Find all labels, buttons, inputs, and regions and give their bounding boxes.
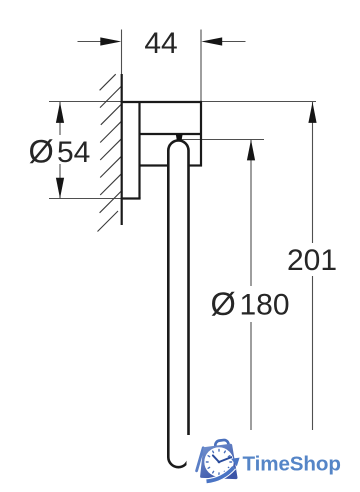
svg-text:180: 180 xyxy=(240,289,290,322)
dimension line 201 upper segment xyxy=(312,102,314,243)
extension line Ø180 (y=139.3) xyxy=(181,139,264,141)
extension line top (y=102, from Ø54/201 dims) xyxy=(49,101,316,103)
dimension 201 up arrowhead xyxy=(308,102,316,123)
extension line 44 left (x=121.5) xyxy=(121,30,123,76)
dimension line Ø180 upper segment xyxy=(250,140,252,286)
holder bottom edge right segment xyxy=(188,164,202,166)
svg-text:54: 54 xyxy=(57,136,90,169)
plate right edge xyxy=(138,102,140,199)
dimension 44 right arrowhead xyxy=(201,37,222,45)
svg-text:201: 201 xyxy=(287,244,337,277)
TimeShop logo: clock tick marks xyxy=(206,449,231,474)
towel ring bar (side view, stadium shape) xyxy=(168,140,188,467)
dimension 44 left tail xyxy=(78,41,102,43)
holder underside line xyxy=(140,133,203,135)
dimension line Ø54 lower segment xyxy=(59,164,61,199)
TimeShop logo: clock hands xyxy=(213,455,231,462)
wall hatching xyxy=(98,74,122,231)
dimension 44 right tail xyxy=(222,41,246,43)
TimeShop logo: bag left stripe xyxy=(197,448,204,471)
plate bottom edge xyxy=(121,197,141,199)
TimeShop logo: bag handle xyxy=(215,439,230,452)
svg-text:44: 44 xyxy=(144,27,177,60)
dimension line 201 lower segment xyxy=(312,276,314,430)
TimeShop logo: clock face xyxy=(204,447,233,476)
svg-text:Ø: Ø xyxy=(29,134,54,170)
logo white backdrop left part (cuts ring at y=435 / x=186.5) xyxy=(187,435,360,492)
svg-text:TimeShop: TimeShop xyxy=(243,452,341,475)
TimeShop logo: bag body xyxy=(202,445,236,477)
extension line bottom of Ø54 (y=198.5) xyxy=(49,198,122,200)
logo white backdrop right part (cuts dim lines at y=430) xyxy=(194,430,360,492)
ring hanger pin xyxy=(176,134,183,140)
dimension line Ø54 upper segment xyxy=(59,102,61,135)
wall face line xyxy=(121,74,123,225)
holder bottom edge left segment xyxy=(140,164,169,166)
svg-text:Ø: Ø xyxy=(211,286,236,322)
dimension 44 left arrowhead xyxy=(100,37,121,45)
dimension Ø180 up arrowhead xyxy=(247,140,255,161)
holder right edge xyxy=(200,102,202,167)
dimension Ø54 up arrowhead xyxy=(56,102,64,123)
dimension Ø54 down arrowhead xyxy=(56,178,64,199)
TimeShop logo: clock center dot xyxy=(218,461,221,464)
holder/plate top edge xyxy=(121,101,202,103)
extension line 44 right (x=201) xyxy=(200,30,202,103)
dimension line Ø180 lower segment xyxy=(250,322,252,430)
TimeShop logo: swoosh arrow xyxy=(207,467,234,481)
TimeShop logo: swoosh arrowhead xyxy=(231,458,240,467)
